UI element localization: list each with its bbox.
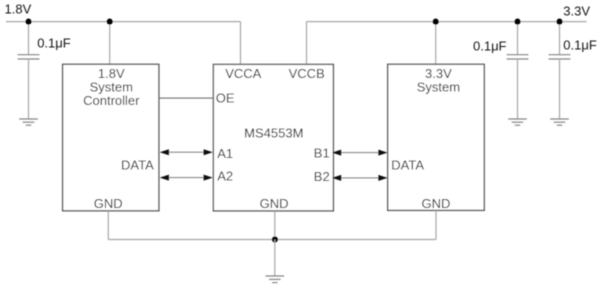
wire 3.3V to system VCC bbox=[435, 22, 437, 65]
svg-text:GND: GND bbox=[94, 196, 123, 211]
svg-text:A2: A2 bbox=[217, 168, 233, 183]
wire B2 bidirectional bus bbox=[332, 175, 388, 181]
block U3 3.3V System bbox=[388, 64, 485, 210]
node junction rail/C1 bbox=[25, 19, 31, 25]
block U1 MS4553M level translator bbox=[213, 64, 333, 211]
svg-text:B1: B1 bbox=[314, 146, 330, 161]
node junction rail/controller bbox=[107, 19, 113, 25]
svg-text:VCCA: VCCA bbox=[225, 66, 261, 81]
svg-text:1.8V: 1.8V bbox=[5, 2, 32, 17]
ground main earth symbol bbox=[266, 276, 285, 283]
node junction rail/C2 bbox=[514, 19, 520, 25]
svg-text:VCCB: VCCB bbox=[289, 66, 325, 81]
wire 1.8V to C1 bbox=[28, 22, 30, 55]
wire A2 bidirectional bus bbox=[160, 175, 213, 181]
wire OE enable line bbox=[159, 97, 214, 99]
wire 1.8V rail bbox=[6, 21, 241, 23]
capacitor C2 0.1uF bbox=[507, 55, 529, 59]
svg-text:A1: A1 bbox=[217, 146, 233, 161]
node junction rail/system bbox=[433, 19, 439, 25]
wire U3 GND drop bbox=[435, 210, 437, 239]
wire C2 to ground bbox=[517, 59, 519, 119]
svg-text:GND: GND bbox=[260, 196, 289, 211]
capacitor C1 0.1uF bbox=[18, 55, 40, 59]
wire ground bus bbox=[108, 239, 436, 241]
svg-text:3.3V: 3.3V bbox=[563, 3, 590, 18]
capacitor C3 0.1uF bbox=[549, 55, 571, 59]
wire C3 to ground bbox=[559, 59, 561, 119]
ground C1 bbox=[19, 119, 38, 125]
svg-text:OE: OE bbox=[216, 91, 235, 106]
svg-text:Controller: Controller bbox=[83, 93, 140, 108]
svg-text:GND: GND bbox=[422, 196, 451, 211]
wire B1 bidirectional bus bbox=[332, 150, 388, 156]
svg-text:System: System bbox=[417, 79, 460, 94]
wire A1 bidirectional bus bbox=[160, 149, 213, 155]
ground C2 bbox=[508, 119, 527, 125]
wire C1 to ground bbox=[28, 59, 30, 119]
wire VCCB drop bbox=[306, 22, 308, 65]
node junction rail/C3 bbox=[556, 19, 562, 25]
wire 3.3V rail bbox=[307, 21, 587, 23]
svg-text:0.1μF: 0.1μF bbox=[473, 38, 507, 53]
svg-text:0.1μF: 0.1μF bbox=[37, 36, 71, 51]
svg-text:MS4553M: MS4553M bbox=[244, 125, 303, 140]
wire 3.3V to C2 bbox=[517, 22, 519, 55]
svg-text:B2: B2 bbox=[314, 169, 330, 184]
node junction ground bus bbox=[272, 236, 278, 242]
wire U2 GND drop bbox=[107, 211, 109, 240]
svg-text:DATA: DATA bbox=[391, 158, 424, 173]
wire 3.3V to C3 bbox=[559, 22, 561, 55]
svg-text:DATA: DATA bbox=[121, 157, 154, 172]
wire VCCA drop bbox=[240, 22, 242, 65]
wire ground stem bbox=[274, 240, 276, 277]
wire U1 GND drop bbox=[274, 211, 276, 240]
wire 1.8V to controller VCC bbox=[109, 22, 111, 65]
svg-text:0.1μF: 0.1μF bbox=[563, 38, 597, 53]
ground C3 bbox=[550, 119, 569, 125]
block U2 1.8V System Controller bbox=[63, 64, 159, 211]
